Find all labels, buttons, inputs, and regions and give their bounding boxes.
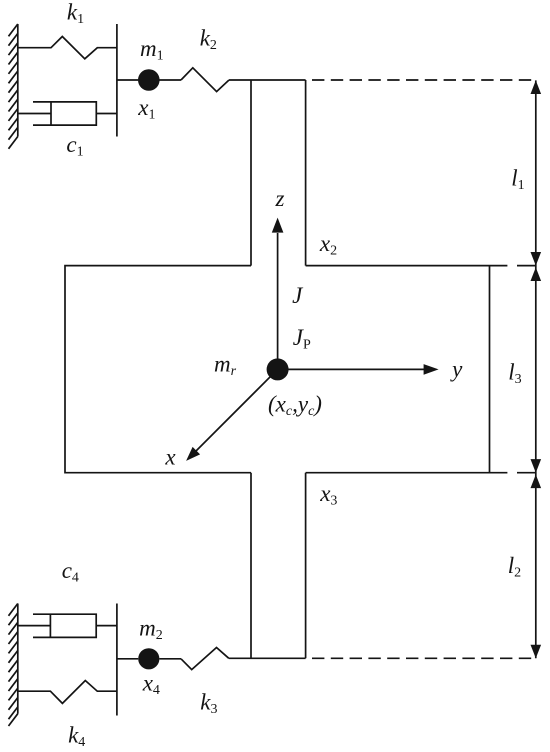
spring k3 — [181, 648, 229, 670]
spring k2 — [181, 68, 229, 92]
rotor body — [65, 266, 490, 473]
shaft upper-left line — [250, 80, 252, 266]
svg-text:J: J — [292, 283, 304, 308]
z axis arrowhead — [272, 218, 284, 233]
shaft upper-right line — [305, 80, 307, 266]
svg-text:l3: l3 — [508, 359, 521, 387]
svg-text:mr: mr — [214, 352, 237, 380]
wire bar-to-m2 — [117, 658, 138, 660]
dim arrow down (bottom of l3) — [531, 459, 542, 473]
dim arrow up (top of l1) — [531, 80, 542, 94]
shaft lower-left line — [250, 473, 252, 659]
x axis arrowhead — [186, 447, 200, 461]
wall W1 (top-left) — [9, 24, 18, 149]
svg-text:k2: k2 — [200, 25, 217, 53]
spring k4 — [18, 681, 117, 704]
wire m1-to-k2 — [159, 79, 181, 81]
svg-text:m2: m2 — [139, 615, 163, 643]
y axis line — [278, 368, 424, 370]
svg-text:x2: x2 — [319, 231, 337, 258]
svg-text:x1: x1 — [137, 95, 155, 123]
extension line (rotor top edge, right) — [490, 265, 536, 267]
dim arrow down (bottom of l2) — [531, 645, 542, 659]
extension line (rotor bottom edge, right) — [490, 472, 536, 474]
node JP (center dot) — [267, 358, 289, 380]
svg-text:y: y — [450, 357, 463, 382]
damper c1 — [18, 102, 117, 125]
svg-text:x3: x3 — [319, 481, 337, 509]
svg-text:m1: m1 — [140, 36, 164, 64]
y axis arrowhead — [424, 364, 439, 375]
dashed line (bottom, y=658) — [312, 657, 531, 659]
wire bar-to-m1 — [117, 79, 138, 81]
mass m1 (dot) — [138, 69, 160, 91]
svg-text:(xc,yc): (xc,yc) — [268, 392, 322, 420]
wire m2-to-k3 — [159, 658, 181, 660]
dim arrow up (top of l3) — [531, 267, 542, 281]
shaft lower-right line — [305, 473, 307, 659]
dashed line (top, y=80) — [312, 79, 531, 81]
svg-text:c4: c4 — [62, 558, 79, 586]
dim arrow up (top of l2) — [531, 475, 542, 489]
svg-text:l1: l1 — [511, 166, 524, 194]
damper c4 — [18, 614, 117, 637]
svg-text:k3: k3 — [200, 690, 217, 718]
svg-text:k4: k4 — [68, 723, 85, 751]
dim arrow down (bottom of l1) — [531, 252, 542, 266]
wire k2-to-shaft / shaft top edge — [229, 79, 306, 81]
svg-text:c1: c1 — [66, 132, 83, 160]
spring k1 — [18, 37, 117, 59]
svg-text:l2: l2 — [508, 553, 521, 581]
bar B2 (rigid link m2) — [116, 604, 118, 716]
bar B1 (rigid link m1) — [116, 24, 118, 137]
z axis line — [277, 233, 279, 369]
svg-text:z: z — [275, 186, 285, 211]
wire k3-to-shaft / shaft bottom edge — [229, 657, 306, 659]
svg-text:x4: x4 — [142, 671, 160, 699]
svg-text:JP: JP — [293, 325, 311, 353]
x axis line — [195, 369, 278, 452]
dimension line (l1+l3+l2) — [535, 80, 537, 658]
mass m2 (dot) — [138, 648, 159, 669]
wall W2 (bottom-left) — [9, 604, 18, 727]
svg-text:k1: k1 — [67, 0, 84, 27]
svg-text:x: x — [164, 444, 176, 469]
